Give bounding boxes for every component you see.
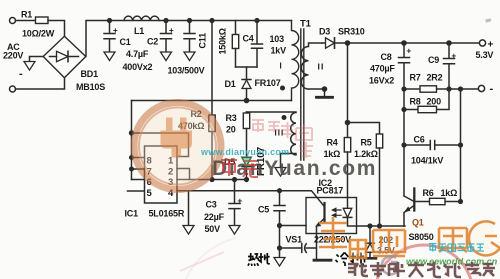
svg-text:4.7µF: 4.7µF	[126, 49, 149, 59]
svg-text:470µF: 470µF	[370, 64, 395, 74]
svg-text:20: 20	[226, 125, 236, 135]
svg-text:+: +	[407, 47, 412, 56]
svg-text:R6: R6	[423, 188, 434, 198]
svg-text:C1: C1	[120, 37, 131, 47]
svg-text:+: +	[169, 26, 174, 35]
svg-text:C8: C8	[381, 52, 392, 62]
svg-text:16Vx2: 16Vx2	[369, 76, 394, 86]
svg-text:S8050: S8050	[409, 232, 434, 242]
svg-text:-: -	[490, 83, 494, 95]
svg-text:5L0165R: 5L0165R	[149, 209, 185, 219]
svg-text:10Ω/2W: 10Ω/2W	[22, 29, 55, 39]
svg-text:C5: C5	[258, 205, 269, 215]
svg-text:VS1: VS1	[286, 235, 303, 245]
svg-text:R3: R3	[226, 113, 237, 123]
svg-text:C3: C3	[206, 200, 217, 210]
svg-text:IC1: IC1	[125, 209, 139, 219]
svg-text:II: II	[318, 62, 325, 72]
svg-text:400Vx2: 400Vx2	[123, 62, 153, 72]
svg-text:220V: 220V	[3, 51, 23, 61]
svg-text:C11: C11	[198, 33, 208, 49]
svg-text:22µF: 22µF	[204, 212, 225, 222]
svg-text:1kV: 1kV	[271, 46, 287, 56]
svg-text:Q1: Q1	[412, 218, 424, 228]
svg-text:R1: R1	[21, 10, 32, 20]
svg-text:+: +	[488, 40, 494, 51]
svg-text:1kΩ: 1kΩ	[441, 188, 458, 198]
svg-text:150kΩ: 150kΩ	[218, 28, 228, 54]
svg-text:C9: C9	[428, 55, 439, 65]
svg-text:200: 200	[427, 97, 442, 107]
svg-text:-: -	[19, 68, 23, 80]
svg-text:SR310: SR310	[338, 27, 365, 37]
svg-text:T1: T1	[300, 19, 312, 30]
svg-text:R4: R4	[327, 138, 338, 148]
svg-text:103: 103	[270, 34, 285, 44]
svg-text:104/1kV: 104/1kV	[411, 156, 443, 166]
svg-text:5.3V: 5.3V	[476, 50, 494, 60]
svg-text:50V: 50V	[205, 224, 221, 234]
svg-text:FR107: FR107	[255, 78, 281, 88]
svg-text:I: I	[280, 62, 282, 71]
svg-text:L1: L1	[134, 26, 144, 36]
svg-text:+: +	[113, 26, 118, 35]
svg-text:C4: C4	[243, 34, 254, 44]
svg-text:R8: R8	[410, 97, 421, 107]
svg-text:R7: R7	[410, 73, 421, 83]
svg-text:+: +	[452, 52, 457, 61]
svg-text:2R2: 2R2	[427, 73, 443, 83]
svg-text:D3: D3	[319, 27, 330, 37]
svg-text:BD1: BD1	[81, 69, 99, 79]
svg-text:103/500V: 103/500V	[168, 66, 205, 76]
svg-text:+: +	[238, 197, 243, 206]
svg-text:PC817: PC817	[317, 186, 344, 196]
svg-text:R5: R5	[361, 138, 372, 148]
svg-text:C2: C2	[147, 37, 158, 47]
svg-text:C6: C6	[414, 135, 425, 145]
svg-text:MB10S: MB10S	[76, 82, 105, 92]
svg-text:D1: D1	[225, 79, 236, 89]
svg-text:www.dianyuan.com: www.dianyuan.com	[200, 147, 289, 157]
